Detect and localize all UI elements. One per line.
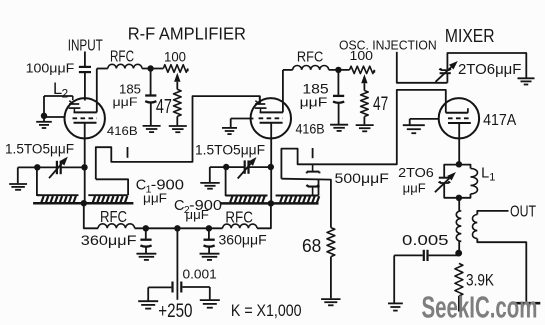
svg-text:INPUT: INPUT [68,37,104,54]
svg-text:1.5TO5μμF: 1.5TO5μμF [195,143,265,158]
svg-text:417A: 417A [483,112,517,129]
svg-text:47: 47 [156,96,172,118]
svg-text:47: 47 [373,93,388,115]
svg-text:416B: 416B [296,122,325,137]
svg-text:0.005: 0.005 [402,232,449,249]
svg-text:0.001: 0.001 [183,266,217,281]
svg-text:1.5TO5μμF: 1.5TO5μμF [5,142,74,157]
svg-text:2: 2 [62,87,69,101]
svg-text:68: 68 [302,236,321,256]
svg-text:100μμF: 100μμF [26,62,75,76]
svg-text:3.9K: 3.9K [466,271,495,290]
svg-text:100: 100 [350,48,374,63]
svg-text:-900: -900 [189,198,222,214]
svg-text:L: L [481,166,489,182]
svg-text:360μμF: 360μμF [81,233,137,248]
svg-text:500μμF: 500μμF [335,171,389,186]
svg-text:RFC: RFC [225,209,253,226]
svg-text:100: 100 [164,50,186,65]
svg-text:OUT: OUT [510,204,536,221]
svg-text:-900: -900 [151,177,184,193]
svg-text:μμF: μμF [403,180,426,195]
svg-text:RFC: RFC [100,209,127,226]
svg-text:K = X1,000: K = X1,000 [231,301,302,320]
svg-text:185: 185 [302,82,328,97]
svg-text:RFC: RFC [110,49,134,66]
svg-text:360μμF: 360μμF [219,232,267,247]
svg-text:2TO6μμF: 2TO6μμF [458,62,522,78]
svg-text:416B: 416B [107,124,138,138]
svg-text:1: 1 [489,172,495,184]
svg-text:R-F AMPLIFIER: R-F AMPLIFIER [128,23,246,43]
svg-text:SeekIC.com: SeekIC.com [422,290,538,325]
svg-text:+250: +250 [158,301,192,322]
svg-text:2TO6: 2TO6 [398,165,434,180]
svg-text:MIXER: MIXER [445,26,495,46]
svg-text:RFC: RFC [297,49,323,66]
svg-text:μμF: μμF [113,95,139,109]
svg-text:μμF: μμF [300,95,328,109]
